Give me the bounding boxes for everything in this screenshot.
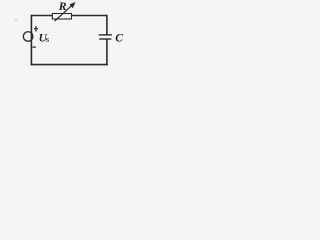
- svg-text:S: S: [46, 37, 50, 44]
- svg-text:R: R: [58, 0, 67, 13]
- svg-text:C: C: [115, 33, 123, 45]
